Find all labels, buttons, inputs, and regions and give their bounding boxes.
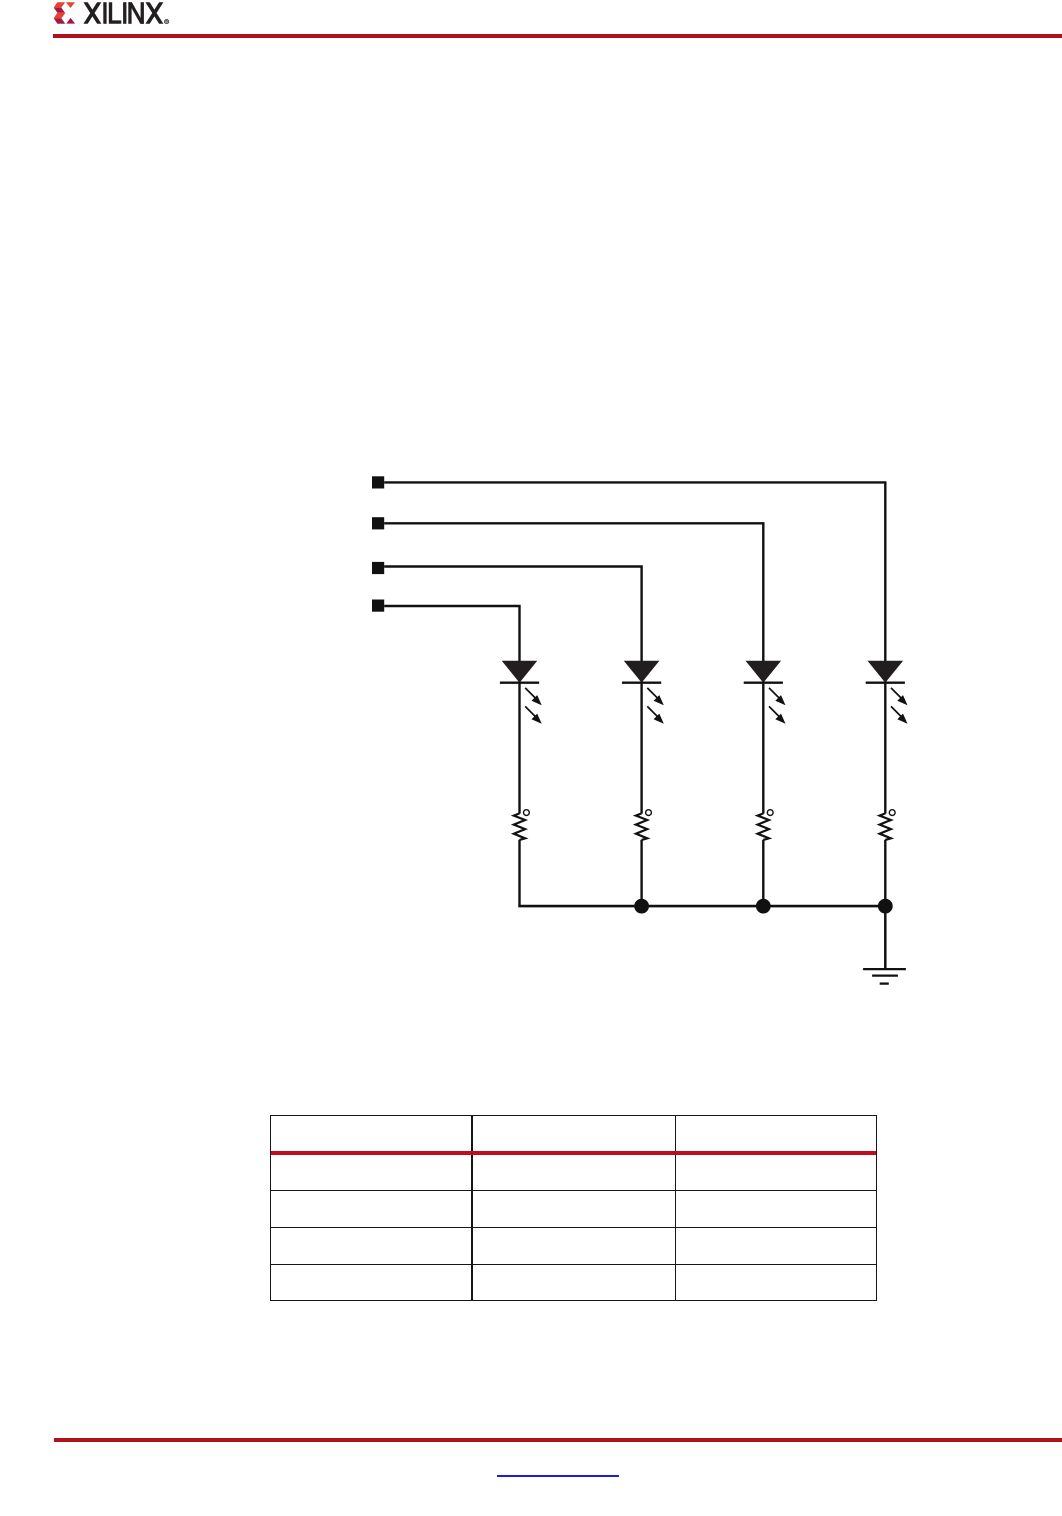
ground bus wire	[518, 905, 886, 908]
wire net2	[384, 523, 763, 661]
wire R2-bus	[640, 840, 642, 906]
wire D3-R3	[762, 683, 764, 814]
junction node C	[878, 899, 893, 914]
wire net4	[384, 606, 519, 661]
LED D1	[500, 661, 542, 724]
terminal pin 2	[372, 517, 384, 529]
wire R4-bus	[884, 840, 886, 906]
resistor R1	[514, 810, 530, 840]
bottom red rule	[54, 1438, 1062, 1442]
resistor R4	[880, 810, 896, 840]
resistor R3	[758, 810, 774, 840]
Xilinx logo	[53, 0, 173, 26]
ground	[863, 969, 906, 984]
wire D1-R1	[518, 683, 520, 814]
table	[270, 1115, 877, 1301]
wire D4-R4	[884, 683, 886, 814]
top red rule	[53, 34, 1062, 38]
terminal pin 4	[372, 600, 384, 612]
LED D4	[866, 661, 908, 724]
wire D2-R2	[640, 683, 642, 814]
terminal pin 1	[372, 476, 384, 488]
wire to ground	[884, 906, 887, 969]
junction node A	[634, 899, 649, 914]
LED D2	[622, 661, 664, 724]
wire net1	[384, 482, 885, 661]
junction node B	[756, 899, 771, 914]
wire net3	[384, 567, 641, 662]
resistor R2	[636, 810, 651, 840]
footer link underline	[497, 1475, 619, 1477]
wire R1-bus	[518, 840, 520, 906]
terminal pin 3	[372, 562, 384, 574]
wire R3-bus	[762, 840, 764, 906]
LED D3	[744, 661, 786, 724]
